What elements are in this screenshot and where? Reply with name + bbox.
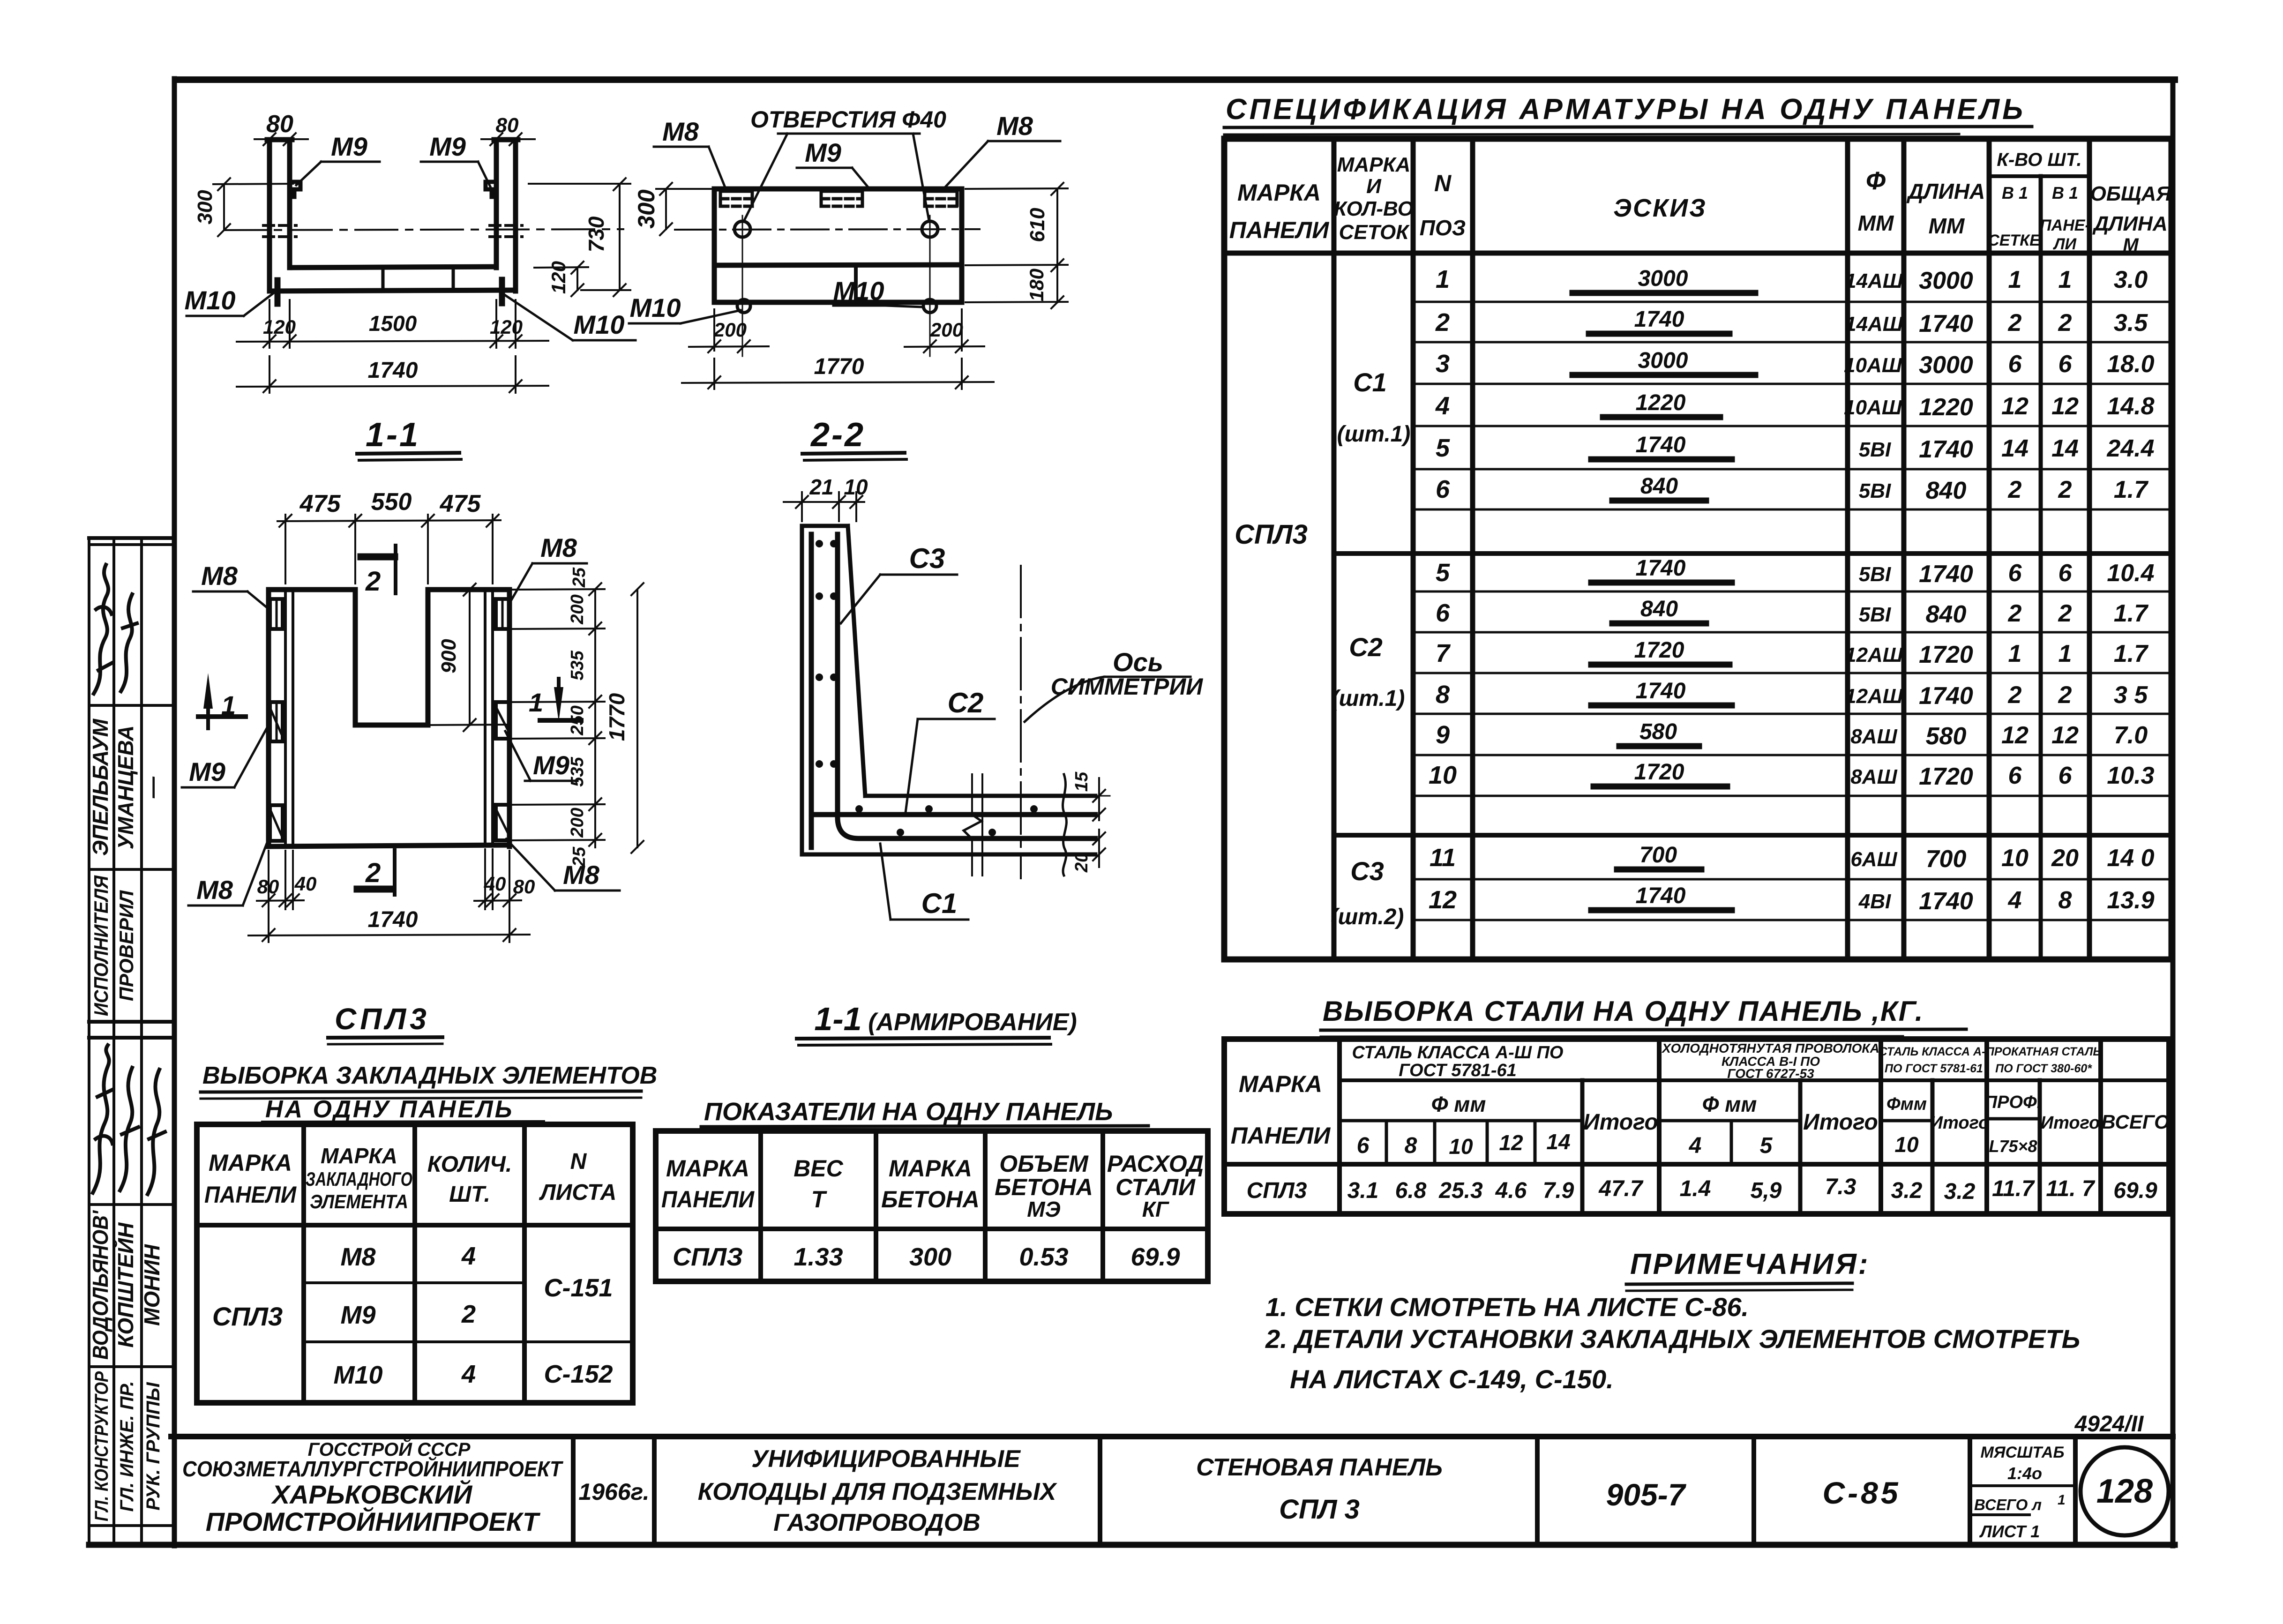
- svg-text:М9: М9: [340, 1301, 375, 1329]
- svg-text:10: 10: [1894, 1132, 1919, 1157]
- svg-text:10: 10: [1449, 1134, 1473, 1159]
- svg-text:18.0: 18.0: [2107, 351, 2154, 378]
- svg-text:14 0: 14 0: [2107, 845, 2154, 872]
- steel table grid: [1224, 1039, 2169, 1214]
- dim chain 120 1500 120: [237, 300, 548, 348]
- svg-text:2: 2: [2008, 309, 2022, 337]
- svg-text:1: 1: [2008, 266, 2022, 293]
- spec table qty per mesh column: [2001, 266, 2029, 914]
- svg-text:МЯСШТАБ: МЯСШТАБ: [1980, 1444, 2064, 1461]
- svg-text:ПОЗ: ПОЗ: [1420, 216, 1466, 240]
- svg-text:(шт.2): (шт.2): [1331, 905, 1404, 929]
- arm axis of symmetry: [1020, 566, 1022, 878]
- svg-text:КОПШТЕЙН: КОПШТЕЙН: [113, 1222, 138, 1347]
- svg-text:N: N: [570, 1149, 587, 1174]
- svg-text:1720: 1720: [1919, 641, 1973, 668]
- svg-text:25.3: 25.3: [1438, 1178, 1483, 1203]
- strip labels section 2: [91, 1371, 164, 1521]
- svg-text:12: 12: [2051, 722, 2079, 749]
- svg-text:МОНИН: МОНИН: [140, 1244, 164, 1325]
- svg-text:СПЛ3: СПЛ3: [1235, 519, 1308, 550]
- svg-text:МАРКА: МАРКА: [889, 1155, 972, 1182]
- svg-text:7.9: 7.9: [1543, 1178, 1574, 1203]
- svg-text:1: 1: [2058, 1492, 2066, 1508]
- svg-text:1. СЕТКИ СМОТРЕТЬ НА ЛИС: 1. СЕТКИ СМОТРЕТЬ НА ЛИСТЕ С-86.: [1265, 1292, 1749, 1322]
- arm wall and slab outline: [802, 526, 1095, 854]
- svg-text:СПЛ 3: СПЛ 3: [1279, 1494, 1360, 1525]
- svg-text:С1: С1: [921, 888, 958, 919]
- svg-text:5,9: 5,9: [1751, 1178, 1782, 1203]
- svg-text:КОЛИЧ.: КОЛИЧ.: [427, 1152, 512, 1177]
- svg-text:СПЛ3: СПЛ3: [335, 1002, 430, 1036]
- svg-text:Ось: Ось: [1113, 647, 1163, 677]
- spec table header texts: [1229, 150, 2172, 255]
- spec table grid: [1224, 139, 2171, 959]
- svg-text:535: 535: [568, 756, 587, 786]
- embedded elements table texts: [204, 1144, 616, 1389]
- svg-text:БЕТОНА: БЕТОНА: [881, 1186, 980, 1212]
- svg-text:2-2: 2-2: [810, 416, 865, 454]
- svg-text:ХАРЬКОВСКИЙ: ХАРЬКОВСКИЙ: [271, 1480, 473, 1509]
- section 1-1 slab joint lines: [383, 267, 453, 291]
- svg-text:80: 80: [266, 111, 293, 138]
- section 2-2 labels: [629, 106, 1060, 460]
- svg-text:475: 475: [440, 490, 481, 517]
- svg-text:СПЛ3: СПЛ3: [1247, 1178, 1307, 1203]
- svg-text:840: 840: [1640, 474, 1678, 499]
- svg-text:СТАЛЬ КЛАССА А-Ш ПО: СТАЛЬ КЛАССА А-Ш ПО: [1352, 1043, 1564, 1063]
- svg-text:1: 1: [1436, 265, 1450, 293]
- svg-text:6: 6: [2058, 351, 2073, 378]
- plan section mark 1 right: [529, 679, 581, 722]
- svg-text:ПАНЕЛИ: ПАНЕЛИ: [661, 1186, 755, 1212]
- svg-text:ИСПОЛНИТЕЛЯ: ИСПОЛНИТЕЛЯ: [90, 875, 112, 1016]
- signature strip: [89, 538, 174, 1545]
- svg-text:840: 840: [1926, 477, 1967, 504]
- svg-text:5ВІ: 5ВІ: [1859, 479, 1891, 502]
- svg-text:2: 2: [2058, 600, 2072, 627]
- svg-text:М10: М10: [333, 1361, 382, 1389]
- strip names section 2: [88, 1210, 164, 1360]
- svg-text:БЕТОНА: БЕТОНА: [995, 1174, 1093, 1200]
- svg-text:ЛИСТА: ЛИСТА: [539, 1180, 617, 1205]
- svg-text:700: 700: [1926, 846, 1967, 873]
- dim 1740: [237, 356, 548, 393]
- svg-text:1: 1: [2058, 640, 2072, 667]
- svg-text:1740: 1740: [1636, 883, 1686, 908]
- svg-text:840: 840: [1640, 597, 1678, 621]
- section 1-1 walls and slab outline: [267, 140, 518, 291]
- arm wall rebar dots: [816, 540, 838, 768]
- svg-text:3.1: 3.1: [1347, 1178, 1379, 1203]
- arm slab rebar dots: [855, 805, 1038, 836]
- svg-text:6: 6: [1357, 1133, 1370, 1158]
- svg-text:ПРИМЕЧАНИЯ:: ПРИМЕЧАНИЯ:: [1630, 1248, 1870, 1280]
- svg-text:N: N: [1434, 170, 1452, 196]
- title block scale cell: [1974, 1444, 2066, 1541]
- steel table title: [1321, 995, 1966, 1037]
- svg-text:ВЕС: ВЕС: [793, 1155, 843, 1182]
- svg-text:1740: 1740: [1636, 679, 1686, 703]
- svg-text:Ф мм: Ф мм: [1702, 1092, 1757, 1116]
- svg-text:ЗАКЛАДНОГО: ЗАКЛАДНОГО: [306, 1168, 412, 1190]
- section 1-1 dimensions: [194, 111, 630, 393]
- svg-text:11. 7: 11. 7: [2046, 1176, 2096, 1201]
- svg-text:1-1: 1-1: [366, 416, 420, 454]
- svg-text:ВЫБОРКА СТАЛИ НА ОДНУ ПАН: ВЫБОРКА СТАЛИ НА ОДНУ ПАНЕЛЬ ,КГ.: [1323, 995, 1924, 1027]
- svg-text:1740: 1740: [1636, 433, 1686, 457]
- arm labels: [797, 543, 1203, 1045]
- svg-text:4: 4: [2008, 887, 2022, 914]
- spec table group labels: [1235, 367, 1410, 929]
- svg-text:900: 900: [437, 639, 460, 674]
- svg-text:6: 6: [2008, 762, 2022, 789]
- svg-text:ДЛИНА: ДЛИНА: [2092, 212, 2167, 235]
- svg-text:11.7: 11.7: [1992, 1176, 2035, 1201]
- svg-text:475: 475: [299, 490, 341, 517]
- plan dimensions: [248, 488, 644, 942]
- svg-text:69.9: 69.9: [1130, 1243, 1180, 1271]
- plan inner face lines: [285, 590, 493, 846]
- svg-text:УМАНЦЕВА: УМАНЦЕВА: [113, 726, 138, 850]
- title block series cell: [1606, 1477, 1687, 1512]
- svg-text:200: 200: [568, 594, 587, 624]
- svg-text:5ВІ: 5ВІ: [1859, 603, 1891, 626]
- svg-text:2: 2: [365, 566, 381, 597]
- svg-text:НА ОДНУ ПАНЕЛЬ: НА ОДНУ ПАНЕЛЬ: [265, 1096, 514, 1123]
- spec table sketch bars: [1572, 266, 1755, 910]
- svg-text:ОБЩАЯ: ОБЩАЯ: [2090, 182, 2172, 205]
- svg-text:10АШ: 10АШ: [1844, 354, 1902, 377]
- svg-text:200: 200: [568, 808, 587, 838]
- svg-text:25: 25: [569, 567, 589, 588]
- svg-text:ГОСТ 6727-53: ГОСТ 6727-53: [1727, 1066, 1814, 1081]
- svg-text:ОБЪЕМ: ОБЪЕМ: [999, 1151, 1089, 1177]
- svg-text:1.7: 1.7: [2114, 600, 2148, 627]
- arm C3 mesh bar vertical: [809, 534, 814, 847]
- svg-text:80: 80: [513, 876, 535, 898]
- svg-text:10: 10: [844, 475, 868, 499]
- dim 1770: [682, 354, 994, 389]
- svg-text:МАРКА: МАРКА: [1239, 1071, 1322, 1097]
- svg-text:8: 8: [1436, 681, 1450, 709]
- svg-text:1: 1: [2058, 266, 2072, 293]
- strip labels section 1: [90, 875, 137, 1016]
- svg-text:МАРКА: МАРКА: [1237, 180, 1321, 206]
- svg-text:Фмм: Фмм: [1886, 1094, 1927, 1114]
- svg-text:128: 128: [2096, 1473, 2153, 1510]
- svg-text:14АШ: 14АШ: [1845, 313, 1903, 336]
- dim 80 40 left bottom: [257, 851, 316, 942]
- svg-text:СПЕЦИФИКАЦИЯ АРМАТУРЫ НА ОД: СПЕЦИФИКАЦИЯ АРМАТУРЫ НА ОДНУ ПАНЕЛЬ: [1226, 93, 2026, 126]
- svg-text:ВЫБОРКА ЗАКЛАДНЫХ ЭЛЕМЕНТОВ: ВЫБОРКА ЗАКЛАДНЫХ ЭЛЕМЕНТОВ: [202, 1062, 657, 1089]
- svg-text:4ВІ: 4ВІ: [1858, 890, 1891, 913]
- svg-text:12: 12: [1499, 1130, 1523, 1155]
- svg-text:2: 2: [365, 858, 381, 888]
- svg-text:К-ВО ШТ.: К-ВО ШТ.: [1997, 150, 2081, 170]
- indicators table grid: [656, 1131, 1208, 1281]
- title block: [171, 1437, 2173, 1545]
- steel table header texts: [1231, 1041, 2170, 1159]
- svg-text:120: 120: [490, 316, 523, 338]
- svg-text:40: 40: [484, 873, 506, 895]
- svg-text:5: 5: [1760, 1133, 1773, 1158]
- dim 610 right: [966, 183, 1068, 271]
- svg-text:М8: М8: [196, 875, 233, 905]
- svg-text:2: 2: [2058, 309, 2072, 337]
- svg-text:ММ: ММ: [1858, 211, 1894, 235]
- svg-text:Ф: Ф: [1866, 167, 1886, 195]
- dim 21 10 top: [784, 475, 868, 521]
- dim 300 left: [194, 178, 293, 236]
- section 1-1 labels: [185, 132, 636, 460]
- section 1-1 axis line: [224, 229, 623, 230]
- svg-text:КОЛ-ВО: КОЛ-ВО: [1334, 197, 1414, 220]
- dim 730 right: [529, 178, 630, 296]
- svg-text:10.4: 10.4: [2107, 560, 2154, 587]
- svg-text:3000: 3000: [1638, 348, 1688, 373]
- svg-text:ЭСКИЗ: ЭСКИЗ: [1613, 194, 1707, 222]
- svg-text:6: 6: [1436, 475, 1450, 503]
- svg-text:ЭЛЕМЕНТА: ЭЛЕМЕНТА: [310, 1190, 408, 1212]
- svg-text:1740: 1740: [1919, 682, 1973, 710]
- dim 1740 bottom: [248, 907, 530, 941]
- svg-text:М8: М8: [340, 1243, 375, 1271]
- dim 300 left: [633, 183, 717, 235]
- svg-text:Итого: Итого: [1583, 1110, 1658, 1135]
- svg-text:2: 2: [1435, 308, 1450, 337]
- svg-text:Ф мм: Ф мм: [1431, 1092, 1486, 1116]
- svg-text:1740: 1740: [1634, 307, 1684, 332]
- svg-text:М8: М8: [201, 561, 238, 591]
- svg-text:1:4о: 1:4о: [2007, 1464, 2042, 1483]
- svg-text:1.4: 1.4: [1680, 1176, 1711, 1201]
- svg-text:С-85: С-85: [1822, 1475, 1901, 1510]
- embedded elements table grid: [197, 1124, 633, 1403]
- steel table body row: [1247, 1175, 2157, 1204]
- svg-text:ГОСТ 5781-61: ГОСТ 5781-61: [1399, 1061, 1517, 1080]
- svg-text:ГЛ. ИНЖЕ. ПР.: ГЛ. ИНЖЕ. ПР.: [117, 1381, 137, 1512]
- svg-text:6: 6: [1436, 599, 1450, 627]
- svg-text:ПРОКАТНАЯ СТАЛЬ: ПРОКАТНАЯ СТАЛЬ: [1986, 1045, 2101, 1058]
- svg-text:1.33: 1.33: [793, 1243, 843, 1271]
- svg-text:4924/II: 4924/II: [2074, 1412, 2144, 1437]
- svg-text:М10: М10: [833, 276, 884, 306]
- title block year cell: [578, 1479, 649, 1505]
- section 2-2 holes F40: [734, 216, 938, 356]
- svg-text:В 1: В 1: [2002, 183, 2028, 202]
- svg-text:М9: М9: [331, 132, 367, 161]
- svg-text:10.3: 10.3: [2107, 762, 2154, 789]
- svg-text:ОТВЕРСТИЯ Ф40: ОТВЕРСТИЯ Ф40: [750, 106, 946, 133]
- svg-text:200: 200: [713, 319, 747, 341]
- svg-text:2: 2: [2008, 600, 2022, 627]
- svg-text:6: 6: [2008, 351, 2022, 378]
- svg-text:ВСЕГО л: ВСЕГО л: [1974, 1496, 2042, 1513]
- reinforcement section 1-1 drawing: [802, 526, 1095, 878]
- svg-text:Т: Т: [811, 1186, 828, 1212]
- svg-text:ПО ГОСТ 380-60*: ПО ГОСТ 380-60*: [1995, 1062, 2092, 1075]
- svg-text:—: —: [140, 776, 164, 799]
- svg-text:6.8: 6.8: [1395, 1178, 1427, 1203]
- spec table length column: [1919, 267, 1973, 915]
- spec table title: [1224, 93, 2032, 135]
- section 1-1 wall dashes: [263, 225, 522, 237]
- notes title: [1626, 1248, 1870, 1291]
- arm C2 slab bar: [816, 812, 1095, 817]
- section 2-2 dimensions: [633, 183, 1068, 389]
- svg-text:С1: С1: [1353, 367, 1387, 397]
- svg-text:С2: С2: [948, 687, 984, 718]
- svg-text:И: И: [1366, 175, 1382, 198]
- svg-text:250: 250: [568, 705, 587, 735]
- dim 200 left: [689, 309, 769, 352]
- svg-text:200: 200: [930, 319, 963, 341]
- svg-text:МЭ: МЭ: [1027, 1197, 1060, 1221]
- svg-text:1740: 1740: [368, 358, 418, 383]
- svg-text:6: 6: [2058, 762, 2073, 789]
- svg-text:1-1: 1-1: [814, 1001, 861, 1037]
- svg-text:10: 10: [1429, 761, 1457, 789]
- svg-text:40: 40: [294, 873, 317, 895]
- svg-text:С-151: С-151: [544, 1274, 613, 1302]
- section 2-2 drawing: [675, 189, 980, 356]
- svg-text:М9: М9: [533, 750, 569, 780]
- svg-text:ПОКАЗАТЕЛИ НА ОДНУ ПАНЕЛЬ: ПОКАЗАТЕЛИ НА ОДНУ ПАНЕЛЬ: [704, 1098, 1113, 1126]
- svg-text:ПРОВЕРИЛ: ПРОВЕРИЛ: [115, 890, 137, 1001]
- spec table total length column: [2106, 266, 2154, 914]
- svg-text:С3: С3: [1350, 856, 1384, 886]
- svg-text:1720: 1720: [1919, 763, 1973, 790]
- svg-text:5ВІ: 5ВІ: [1859, 438, 1891, 461]
- svg-text:5ВІ: 5ВІ: [1859, 563, 1891, 586]
- svg-text:ММ: ММ: [1929, 214, 1965, 238]
- svg-text:1: 1: [221, 690, 236, 720]
- svg-text:1740: 1740: [1919, 436, 1973, 463]
- svg-text:300: 300: [633, 189, 659, 229]
- dim chain right 25 200 535 250 535 200 25: [511, 567, 605, 867]
- svg-text:В 1: В 1: [2052, 183, 2078, 202]
- svg-text:120: 120: [547, 261, 569, 294]
- svg-text:1720: 1720: [1634, 760, 1684, 785]
- svg-text:Итого: Итого: [1803, 1110, 1878, 1135]
- plan section mark 2 top: [361, 546, 396, 597]
- svg-text:1220: 1220: [1919, 394, 1973, 421]
- strip names section 1: [88, 718, 164, 856]
- svg-text:Итого: Итого: [1930, 1113, 1989, 1133]
- svg-text:12АШ: 12АШ: [1845, 685, 1903, 708]
- svg-text:10: 10: [2001, 845, 2029, 872]
- svg-text:ГЛ. КОНСТРУКТОР: ГЛ. КОНСТРУКТОР: [91, 1371, 112, 1521]
- embedded elements table title: [201, 1002, 657, 1123]
- section 1-1 drawing: [224, 140, 623, 304]
- svg-text:180: 180: [1025, 269, 1048, 301]
- svg-text:МАРКА: МАРКА: [209, 1150, 292, 1176]
- svg-text:М8: М8: [563, 860, 600, 890]
- svg-text:14: 14: [2051, 435, 2079, 462]
- svg-text:СПЛЗ: СПЛЗ: [673, 1243, 743, 1271]
- svg-text:2: 2: [2058, 681, 2072, 709]
- svg-text:М8: М8: [996, 111, 1033, 141]
- svg-text:80: 80: [257, 876, 279, 898]
- svg-text:СТЕНОВАЯ ПАНЕЛЬ: СТЕНОВАЯ ПАНЕЛЬ: [1196, 1454, 1443, 1481]
- section 1-1 M9 corner brackets: [290, 182, 496, 197]
- svg-text:4: 4: [461, 1242, 476, 1270]
- svg-text:2: 2: [2058, 476, 2072, 503]
- plan section mark 1 left: [198, 673, 246, 728]
- svg-text:4: 4: [461, 1360, 476, 1388]
- notes text: [1265, 1292, 2080, 1394]
- dim 20 right: [1072, 830, 1105, 873]
- svg-text:ПАНЕЛИ: ПАНЕЛИ: [1231, 1123, 1331, 1149]
- svg-text:2: 2: [461, 1300, 476, 1328]
- svg-text:СОЮЗМЕТАЛЛУРГСТРОЙНИИПРОЕКТ: СОЮЗМЕТАЛЛУРГСТРОЙНИИПРОЕКТ: [182, 1457, 564, 1481]
- plan left embedded plates: [270, 599, 283, 841]
- svg-text:ПО ГОСТ 5781-61: ПО ГОСТ 5781-61: [1885, 1062, 1983, 1075]
- svg-text:СТАЛЬ КЛАССА А-І: СТАЛЬ КЛАССА А-І: [1879, 1045, 1990, 1058]
- svg-text:11: 11: [1430, 844, 1456, 872]
- svg-text:1770: 1770: [814, 354, 864, 379]
- svg-text:2: 2: [2008, 476, 2022, 503]
- svg-text:610: 610: [1026, 208, 1049, 242]
- dim 200 right: [905, 309, 984, 352]
- svg-text:69.9: 69.9: [2113, 1178, 2157, 1203]
- svg-text:580: 580: [1926, 723, 1967, 750]
- svg-text:20: 20: [1072, 853, 1092, 873]
- svg-text:С2: С2: [1349, 632, 1383, 662]
- svg-text:4: 4: [1435, 392, 1450, 420]
- plan outline with notch: [269, 590, 509, 846]
- svg-text:МАРКА: МАРКА: [321, 1144, 397, 1168]
- svg-text:47.7: 47.7: [1598, 1176, 1644, 1201]
- title block project cell: [698, 1445, 1058, 1536]
- svg-text:1770: 1770: [605, 693, 629, 741]
- svg-text:10АШ: 10АШ: [1844, 396, 1902, 419]
- svg-text:МАРКА: МАРКА: [1337, 153, 1411, 176]
- section 2-2 joint line: [854, 265, 858, 302]
- svg-text:ВОДОЛЬЯНОВ': ВОДОЛЬЯНОВ': [88, 1210, 112, 1360]
- title block sheet number circle: [2081, 1447, 2169, 1535]
- svg-text:1220: 1220: [1636, 390, 1686, 415]
- dim 180 right: [966, 265, 1068, 308]
- svg-text:ПАНЕЛИ: ПАНЕЛИ: [1229, 217, 1329, 243]
- svg-text:1740: 1740: [1636, 556, 1686, 581]
- svg-text:3.5: 3.5: [2114, 309, 2148, 337]
- dim 1770 right: [605, 583, 644, 853]
- svg-text:М: М: [2123, 235, 2139, 255]
- svg-text:840: 840: [1926, 601, 1967, 628]
- svg-text:14АШ: 14АШ: [1845, 269, 1903, 292]
- dim 900 notch: [428, 584, 511, 731]
- svg-text:РАСХОД: РАСХОД: [1107, 1151, 1204, 1177]
- section 2-2 M10 bottom circles: [737, 299, 936, 313]
- svg-text:7.3: 7.3: [1825, 1175, 1856, 1199]
- svg-text:3000: 3000: [1919, 352, 1973, 379]
- svg-text:L75×8: L75×8: [1989, 1137, 2037, 1156]
- svg-text:1740: 1740: [368, 907, 418, 932]
- svg-text:5: 5: [1436, 559, 1450, 587]
- strip signature squiggles section 2: [93, 1045, 165, 1194]
- dim 120 right slab: [534, 261, 588, 296]
- svg-text:9: 9: [1436, 721, 1450, 749]
- strip signature squiggles section 1: [94, 565, 137, 694]
- svg-text:5: 5: [1436, 434, 1450, 462]
- svg-text:730: 730: [584, 216, 608, 252]
- svg-text:М10: М10: [574, 310, 625, 339]
- svg-text:С3: С3: [909, 543, 945, 574]
- svg-text:7.0: 7.0: [2114, 722, 2148, 749]
- arm break symbol zigzag: [964, 774, 982, 876]
